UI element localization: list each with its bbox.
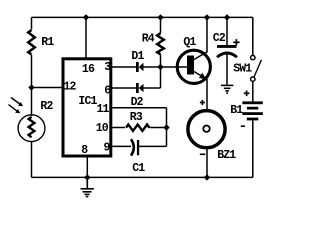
wire SW1 to battery bbox=[252, 82, 254, 102]
IC IC1 (16-pin DIP body) bbox=[63, 59, 111, 156]
minus sign battery bbox=[241, 125, 245, 127]
plus sign BZ1 bbox=[200, 100, 205, 105]
wire pin 6 to D2 bbox=[110, 87, 136, 89]
wire bottom rail bbox=[32, 176, 253, 178]
node junction: V+ rail / C2 bbox=[224, 14, 230, 20]
svg-text:R4: R4 bbox=[142, 32, 155, 45]
wire R3 to vertical bbox=[150, 127, 167, 129]
svg-text:3: 3 bbox=[104, 61, 111, 74]
svg-text:D1: D1 bbox=[131, 50, 144, 63]
wire BZ1 bottom bbox=[206, 150, 208, 178]
svg-text:C2: C2 bbox=[213, 32, 226, 45]
plus sign C2 bbox=[233, 39, 239, 45]
wire pin 8 bbox=[86, 156, 88, 177]
resistor R1 bbox=[28, 30, 35, 55]
buzzer BZ1 bbox=[188, 111, 225, 148]
capacitor C1 bbox=[131, 139, 139, 155]
switch SW1 bbox=[251, 55, 262, 81]
svg-text:10: 10 bbox=[96, 122, 109, 135]
wire SW1 top bbox=[252, 17, 254, 55]
node junction: ground rail / IC1 pin 8 bbox=[84, 174, 90, 180]
node junction: D1 / D2 / R4 / Q1 base bbox=[157, 64, 163, 70]
svg-text:12: 12 bbox=[64, 80, 77, 93]
light arrow 2 bbox=[9, 105, 21, 114]
resistor R3 bbox=[126, 125, 149, 131]
capacitor C2 bbox=[217, 45, 237, 57]
wire base node to Q1 bbox=[161, 66, 189, 68]
svg-text:D2: D2 bbox=[131, 96, 144, 109]
svg-text:11: 11 bbox=[97, 103, 110, 116]
ground (C2) bbox=[221, 85, 233, 93]
wire top rail bbox=[32, 16, 253, 18]
wire Q1 emitter down to BZ1 bbox=[206, 79, 208, 110]
minus sign BZ1 bbox=[200, 153, 206, 155]
node junction: V+ rail / IC1 pin 16 bbox=[83, 14, 89, 20]
photoresistor R2 (LDR) bbox=[18, 115, 45, 142]
wire D1 to node bbox=[143, 66, 160, 68]
node junction: V+ rail / Q1 collector bbox=[204, 14, 210, 20]
wire LDR bottom to bottom rail bbox=[31, 141, 33, 177]
wire D2 to vertical bbox=[143, 87, 160, 89]
wire D2 vertical to node bbox=[160, 67, 162, 88]
wire R1 bottom to LDR top bbox=[31, 55, 33, 116]
battery B1 bbox=[242, 101, 262, 120]
wire pin 9 to C1 bbox=[110, 145, 131, 147]
wire battery to bottom rail bbox=[252, 121, 254, 178]
svg-text:9: 9 bbox=[104, 142, 111, 155]
svg-text:B1: B1 bbox=[230, 104, 243, 117]
ground (main, below pin 8) bbox=[81, 177, 94, 196]
wire pin 16 bbox=[85, 17, 87, 58]
light arrow 1 bbox=[11, 98, 23, 107]
node junction: ground rail / BZ1 bbox=[204, 174, 210, 180]
wire pin 11 bbox=[110, 107, 167, 109]
wire C2 top bbox=[226, 17, 228, 46]
svg-text:R3: R3 bbox=[130, 111, 143, 124]
svg-text:R1: R1 bbox=[41, 36, 54, 49]
node junction: R1 / R2 / IC1 pin 12 bbox=[28, 84, 34, 90]
resistor R4 bbox=[157, 33, 164, 54]
svg-text:Q1: Q1 bbox=[183, 36, 196, 49]
wire left drop to R1 bbox=[31, 17, 33, 29]
wire pin 12 bbox=[32, 87, 64, 89]
svg-text:16: 16 bbox=[82, 63, 95, 76]
wire Q1 collector up bbox=[206, 17, 208, 52]
wire pin 10 to R3 bbox=[110, 127, 125, 129]
wire R4 top bbox=[160, 17, 162, 33]
svg-text:8: 8 bbox=[81, 144, 88, 157]
node junction: V+ rail / R4 bbox=[157, 14, 163, 20]
svg-text:6: 6 bbox=[104, 84, 111, 97]
diode D1 bbox=[136, 62, 144, 72]
svg-text:BZ1: BZ1 bbox=[217, 149, 236, 162]
svg-text:SW1: SW1 bbox=[233, 62, 252, 75]
diode D2 bbox=[136, 83, 144, 93]
node junction: R3 / C1 / pin 11 net bbox=[163, 124, 169, 130]
wire C2 to ground bbox=[226, 53, 228, 85]
svg-text:C1: C1 bbox=[132, 162, 145, 175]
svg-text:IC1: IC1 bbox=[78, 95, 97, 108]
wire C1 to vertical bbox=[139, 145, 167, 147]
wire RC vertical bbox=[166, 108, 168, 147]
transistor Q1 bbox=[177, 50, 210, 83]
wire R4 bottom to node bbox=[160, 55, 162, 68]
plus sign battery bbox=[244, 91, 250, 97]
svg-text:R2: R2 bbox=[40, 100, 53, 113]
wire pin 3 to D1 bbox=[110, 66, 136, 68]
